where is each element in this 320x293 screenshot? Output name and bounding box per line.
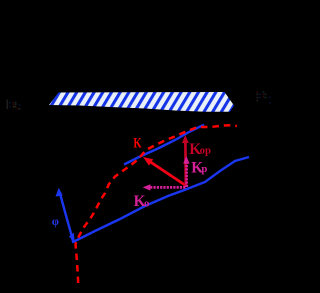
- svg-text:K: K: [133, 135, 142, 151]
- svg-text:op: op: [200, 145, 211, 157]
- vector K_p (magenta dotted vertical): [185, 163, 188, 188]
- svg-text:p: p: [201, 163, 207, 175]
- incline line (lower blue): [73, 157, 249, 242]
- small arrowhead at incline foot: [69, 233, 75, 241]
- svg-text:φ: φ: [52, 216, 59, 228]
- faint label right of bar: [257, 91, 271, 104]
- vector K_op (crimson vertical): [184, 142, 187, 187]
- faint label left of bar: [7, 100, 21, 110]
- tangent line (upper blue): [124, 125, 204, 165]
- trajectory (red dashed parabola): [76, 125, 238, 283]
- initial velocity arrow (blue): [60, 192, 74, 243]
- hatched ceiling bar: [49, 92, 234, 112]
- vector K_o (magenta dotted horizontal): [151, 186, 186, 189]
- svg-text:o: o: [144, 198, 149, 210]
- vector K (resultant, bright red): [150, 162, 187, 186]
